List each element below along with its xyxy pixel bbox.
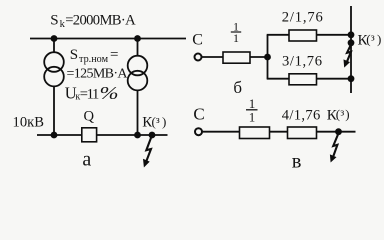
wire xyxy=(250,56,268,58)
label Sk=2000MV·A xyxy=(50,12,136,30)
resistor 3/1,76 xyxy=(289,74,317,85)
wire: top branch left xyxy=(267,34,289,36)
terminal C (diagram b) xyxy=(195,54,202,61)
wire xyxy=(202,131,239,133)
svg-text:з: з xyxy=(340,108,344,119)
svg-text:б: б xyxy=(233,78,242,97)
svg-text:а: а xyxy=(82,149,91,171)
breaker Q xyxy=(82,128,97,142)
node: T2 bus junction xyxy=(134,132,141,139)
terminal C (diagram v) xyxy=(195,128,202,135)
label K(3) left xyxy=(142,114,166,131)
transformer T2 xyxy=(128,56,148,91)
svg-text:=125МВ·А: =125МВ·А xyxy=(67,66,129,81)
label K(3) diagram b xyxy=(358,32,382,49)
wire: left riser xyxy=(267,35,269,79)
svg-text:S: S xyxy=(70,47,78,63)
fault lightning arrow a xyxy=(143,136,152,168)
wire xyxy=(317,78,352,80)
svg-text:1: 1 xyxy=(249,109,256,124)
wire: T1 top lead xyxy=(53,39,55,53)
resistor 2/1,76 xyxy=(289,30,317,41)
wire xyxy=(317,131,356,133)
label Sтр.ном=125МВ·А xyxy=(67,47,129,81)
wire: 10kV bus xyxy=(37,134,168,136)
node: left bus junction xyxy=(51,35,58,42)
svg-text:%: % xyxy=(100,84,119,103)
svg-text:С: С xyxy=(192,31,203,48)
fault lightning arrow v xyxy=(330,133,339,163)
node: bottom branch junction xyxy=(348,75,355,82)
resistor 1/1 (diagram b) xyxy=(223,52,250,63)
wire: system bus 115kV xyxy=(30,38,186,40)
svg-text:4/1,76: 4/1,76 xyxy=(282,108,321,124)
svg-text:=: = xyxy=(110,47,118,63)
wire xyxy=(317,34,352,36)
svg-text:Q: Q xyxy=(84,108,95,124)
svg-text:тр.ном: тр.ном xyxy=(79,54,109,65)
label K(3) diagram v xyxy=(327,107,350,124)
node: 10kV bus left junction xyxy=(51,132,58,139)
node: top branch junction xyxy=(348,31,355,38)
node: fault point v xyxy=(335,128,342,135)
wire xyxy=(269,131,288,133)
svg-text:S: S xyxy=(50,12,58,28)
svg-text:): ) xyxy=(162,114,166,129)
fault lightning arrow b xyxy=(344,43,353,68)
node: right bus junction xyxy=(134,35,141,42)
wire: fault bus vertical xyxy=(350,6,352,93)
svg-text:10кВ: 10кВ xyxy=(13,114,45,130)
svg-text:=11: =11 xyxy=(80,87,100,103)
node: lightning attach xyxy=(348,39,355,46)
resistor 1/1 (diagram v) xyxy=(240,127,270,139)
svg-text:=2000МВ·А: =2000МВ·А xyxy=(65,12,136,28)
value label 1/1 (diagram b) xyxy=(231,20,241,45)
transformer T1 xyxy=(44,52,64,86)
node: split junction xyxy=(264,54,271,61)
svg-text:2/1,76: 2/1,76 xyxy=(282,10,323,26)
value label 1/1 (diagram v) xyxy=(246,96,258,125)
svg-text:в: в xyxy=(292,151,302,173)
svg-text:): ) xyxy=(377,32,381,47)
svg-text:з: з xyxy=(371,33,375,44)
wire: T2 top lead xyxy=(137,39,139,57)
wire: T1 bottom lead xyxy=(53,86,55,135)
svg-text:): ) xyxy=(345,107,349,122)
node: fault point a xyxy=(149,132,156,139)
resistor 4/1,76 xyxy=(288,127,317,139)
wire: bottom branch left xyxy=(267,78,289,80)
svg-text:з: з xyxy=(156,115,160,126)
svg-text:3/1,76: 3/1,76 xyxy=(282,54,322,70)
svg-text:С: С xyxy=(193,105,204,124)
wire: T2 bottom lead xyxy=(137,90,139,135)
label Uк=11% xyxy=(65,84,119,104)
wire xyxy=(202,56,223,58)
svg-text:1: 1 xyxy=(233,31,239,45)
